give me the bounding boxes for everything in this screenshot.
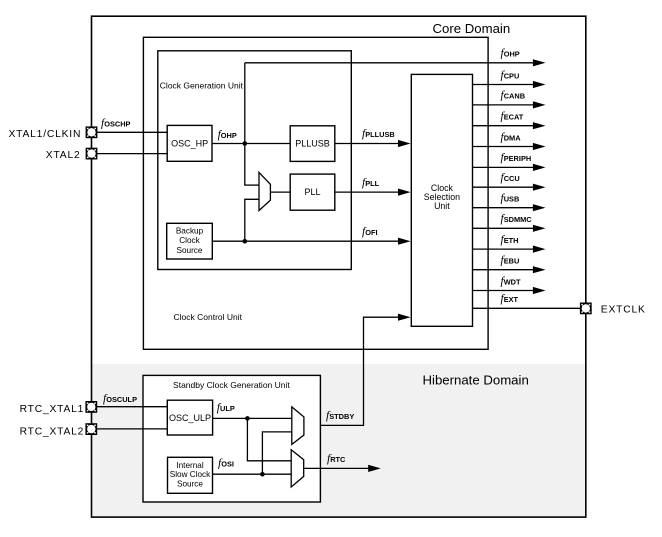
wire fCANB output	[473, 104, 535, 106]
wire fOSI output to mux M3	[213, 473, 292, 475]
svg-text:fOSCULP: fOSCULP	[103, 393, 137, 405]
svg-text:fETH: fETH	[501, 234, 519, 246]
wire fSTDBY from standby mux up into CSU	[304, 317, 400, 425]
multiplexer M3 (rtc)	[291, 450, 304, 487]
wire fDMA output	[473, 146, 535, 148]
wire fOSI branch up to mux M2 input 2	[262, 432, 291, 474]
svg-text:fUSB: fUSB	[501, 193, 520, 205]
arrowhead fSDMMC	[533, 225, 546, 232]
wire fOHP output across to right arrow	[245, 62, 534, 64]
svg-text:Backup: Backup	[176, 226, 204, 235]
pin RTC_XTAL2	[86, 424, 96, 434]
svg-text:fOSCHP: fOSCHP	[101, 118, 131, 130]
arrowhead fDMA	[533, 143, 546, 150]
svg-text:Clock: Clock	[179, 236, 200, 245]
arrowhead fSTDBY into CSU	[398, 314, 411, 321]
svg-text:fECAT: fECAT	[501, 111, 524, 123]
Internal Slow Clock Source block	[168, 457, 213, 493]
svg-text:fRTC: fRTC	[327, 453, 346, 465]
arrowhead fOFI into CSU	[398, 238, 411, 245]
svg-text:fSDMMC: fSDMMC	[501, 213, 533, 225]
svg-text:fULP: fULP	[217, 402, 235, 414]
svg-text:PLL: PLL	[304, 187, 320, 197]
arrowhead fEBU	[533, 266, 546, 273]
svg-text:RTC_XTAL2: RTC_XTAL2	[20, 426, 85, 437]
wire fPERIPH output	[473, 166, 535, 168]
wire OSC_HP output fOHP to PLLUSB	[212, 143, 290, 145]
svg-text:fOHP: fOHP	[501, 48, 520, 60]
wire RTC_XTAL1 to OSC_ULP	[97, 406, 168, 408]
svg-text:fCCU: fCCU	[501, 172, 520, 184]
svg-text:Source: Source	[177, 246, 203, 255]
wire fULP output to mux M2	[213, 417, 292, 419]
wire XTAL1 to OSC_HP	[97, 131, 168, 133]
arrowhead fCCU	[533, 184, 546, 191]
arrowhead fOHP output	[533, 59, 546, 66]
wire XTAL2 to OSC_HP	[97, 153, 168, 155]
svg-text:RTC_XTAL1: RTC_XTAL1	[20, 404, 85, 415]
svg-text:Source: Source	[177, 479, 203, 488]
wire fWDT output	[473, 290, 535, 292]
wire fULP branch down to mux M3 input 1	[247, 418, 291, 460]
Clock Generation Unit box	[158, 51, 351, 270]
svg-text:fPLL: fPLL	[362, 177, 380, 189]
svg-text:fCPU: fCPU	[501, 69, 520, 81]
svg-text:OSC_ULP: OSC_ULP	[169, 413, 211, 423]
hibernate domain shaded region	[92, 364, 584, 516]
svg-text:Unit: Unit	[434, 201, 450, 211]
junction node fULP	[245, 416, 250, 421]
wire fUSB output	[473, 207, 535, 209]
Standby Clock Generation Unit box	[143, 375, 320, 502]
wire fECAT output	[473, 125, 535, 127]
junction node fOHP	[243, 141, 248, 146]
svg-text:OSC_HP: OSC_HP	[171, 139, 208, 149]
wire fEBU output	[473, 269, 535, 271]
svg-text:fEBU: fEBU	[501, 255, 520, 267]
wire backup branch to mux M1 input 2	[245, 199, 259, 241]
svg-text:Core Domain: Core Domain	[433, 21, 511, 36]
wire RTC_XTAL2 to OSC_ULP	[97, 428, 168, 430]
svg-text:fWDT: fWDT	[501, 275, 522, 287]
svg-text:fPLLUSB: fPLLUSB	[362, 128, 395, 140]
svg-text:Clock Control Unit: Clock Control Unit	[174, 312, 243, 322]
wire fCCU output	[473, 186, 535, 188]
svg-text:Hibernate Domain: Hibernate Domain	[423, 372, 529, 387]
wire mux M1 output to PLL	[270, 191, 290, 193]
Backup Clock Source block	[167, 223, 213, 259]
wire fOHP vertical riser and branch down to mux input 1	[244, 63, 246, 185]
pin EXTCLK	[581, 303, 591, 313]
wire fRTC output	[304, 467, 369, 469]
wire fETH output	[473, 248, 535, 250]
arrowhead fPERIPH	[533, 164, 546, 171]
svg-text:fCANB: fCANB	[501, 90, 526, 102]
arrowhead fECAT	[533, 122, 546, 129]
svg-text:fDMA: fDMA	[501, 131, 522, 143]
svg-text:PLLUSB: PLLUSB	[295, 139, 330, 149]
oscillator OSC_HP	[167, 125, 212, 161]
multiplexer M1 before PLL	[259, 172, 270, 210]
svg-text:fPERIPH: fPERIPH	[501, 152, 532, 164]
PLL block	[290, 174, 335, 210]
pin XTAL2	[86, 148, 96, 158]
svg-text:EXTCLK: EXTCLK	[601, 304, 646, 315]
arrowhead fPLLUSB into CSU	[398, 140, 411, 147]
svg-text:Standby Clock Generation Unit: Standby Clock Generation Unit	[173, 380, 290, 390]
svg-text:Clock Generation Unit: Clock Generation Unit	[160, 81, 244, 91]
wire PLLUSB output to Clock Selection Unit	[335, 143, 400, 145]
svg-text:fEXT: fEXT	[501, 293, 519, 305]
wire fCPU output	[473, 84, 535, 86]
svg-text:XTAL1/CLKIN: XTAL1/CLKIN	[8, 129, 81, 140]
Clock Selection Unit box	[411, 74, 472, 326]
svg-text:fOHP: fOHP	[218, 129, 237, 141]
arrowhead fETH	[533, 246, 546, 253]
svg-text:XTAL2: XTAL2	[46, 150, 81, 161]
arrowhead fRTC	[368, 465, 381, 472]
multiplexer M2 (standby)	[292, 407, 304, 445]
wire Backup Clock Source output fOFI to CSU	[212, 240, 399, 242]
svg-text:Slow Clock: Slow Clock	[170, 470, 211, 479]
wire mux M1 input 1	[244, 184, 259, 186]
Clock Control Unit box	[143, 37, 488, 349]
junction node fOFI branch	[243, 239, 248, 244]
PLL USB block PLLUSB	[290, 126, 335, 162]
arrowhead fCPU	[533, 81, 546, 88]
pin XTAL1/CLKIN	[86, 127, 96, 137]
wire PLL output to Clock Selection Unit	[335, 191, 400, 193]
pin RTC_XTAL1	[86, 402, 96, 412]
wire fEXT output to EXTCLK pin	[473, 307, 581, 309]
arrowhead fUSB	[533, 204, 546, 211]
wire fSDMMC output	[473, 227, 535, 229]
svg-text:fSTDBY: fSTDBY	[326, 410, 354, 422]
junction node fOSI	[260, 472, 265, 477]
arrowhead fPLL into CSU	[398, 189, 411, 196]
outer chip box (Core Domain boundary)	[92, 16, 586, 517]
svg-text:fOFI: fOFI	[362, 226, 378, 238]
svg-text:fOSI: fOSI	[218, 458, 234, 470]
arrowhead fCANB	[533, 101, 546, 108]
arrowhead fWDT	[533, 287, 546, 294]
oscillator OSC_ULP	[167, 400, 212, 435]
svg-text:Internal: Internal	[176, 461, 203, 470]
